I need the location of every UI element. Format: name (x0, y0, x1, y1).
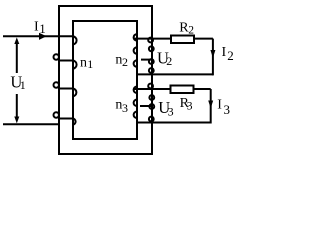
winding n2 inner loop arcs (134, 34, 137, 40)
winding n1 rung 3 (59, 88, 73, 90)
svg-text:3: 3 (224, 102, 231, 117)
label n1 (80, 55, 93, 71)
winding n3 outer curls (148, 84, 153, 89)
wire: R3 to I3 branch corner (194, 88, 211, 90)
label n3 (115, 97, 128, 115)
svg-text:3: 3 (168, 105, 174, 119)
label U2 (157, 49, 172, 68)
winding n2 outer curls (148, 38, 153, 43)
label R3 (180, 96, 193, 113)
label R2 (179, 20, 194, 36)
resistor R3 body (171, 86, 194, 94)
winding n3 middle rung (140, 105, 152, 107)
winding n3 inner loop arcs (134, 87, 137, 93)
svg-text:I: I (217, 98, 222, 113)
svg-text:2: 2 (188, 24, 194, 36)
winding n1 right-side loop arcs (73, 36, 77, 44)
arrow head (down) of voltage U1 (14, 117, 19, 124)
voltage source U1 reference line upper segment (16, 43, 18, 73)
svg-text:3: 3 (122, 101, 128, 115)
svg-text:2: 2 (166, 54, 172, 68)
label U3 (158, 98, 173, 119)
winding n3 bottom rung / return wire start (137, 122, 211, 124)
svg-text:I: I (34, 19, 39, 34)
label I2 (222, 45, 234, 63)
svg-text:1: 1 (39, 21, 46, 36)
label I1 (34, 19, 46, 36)
label U1 (10, 73, 25, 92)
arrow of current I2 on right branch (210, 50, 215, 58)
transformer core inner window (73, 21, 137, 139)
svg-text:2: 2 (122, 55, 128, 69)
transformer core outer outline (59, 6, 152, 154)
label n2 (115, 53, 128, 70)
arrow of current I1 on primary top conductor (39, 33, 47, 40)
wire: I3 branch vertical (210, 89, 212, 124)
svg-text:1: 1 (20, 78, 26, 92)
svg-text:1: 1 (87, 57, 93, 71)
wire: primary top conductor to winding n1 (3, 35, 73, 37)
wire: R2 to I2 branch corner (194, 38, 213, 40)
resistor R2 body (171, 36, 194, 44)
winding n1 left-side curls (54, 54, 59, 59)
winding n2 top rung / wire to resistor R2 (134, 38, 170, 40)
winding n1 rung 2 (59, 60, 73, 62)
svg-text:I: I (222, 45, 227, 60)
winding n1 rung 4 (59, 118, 73, 120)
arrow of current I3 on right branch (208, 101, 213, 109)
wire: primary bottom conductor (3, 123, 60, 125)
winding n2 bottom rung / return wire start (137, 73, 213, 75)
label I3 (217, 98, 230, 118)
svg-text:2: 2 (227, 48, 234, 63)
arrow head (up) of voltage U1 (14, 37, 19, 44)
winding n2 middle rung (141, 59, 152, 61)
voltage source U1 reference line lower segment (16, 94, 18, 118)
wire: I2 branch vertical (212, 39, 214, 76)
winding n3 top rung / wire to resistor R3 (134, 88, 170, 90)
svg-text:3: 3 (187, 101, 193, 113)
svg-text:n: n (80, 55, 87, 70)
